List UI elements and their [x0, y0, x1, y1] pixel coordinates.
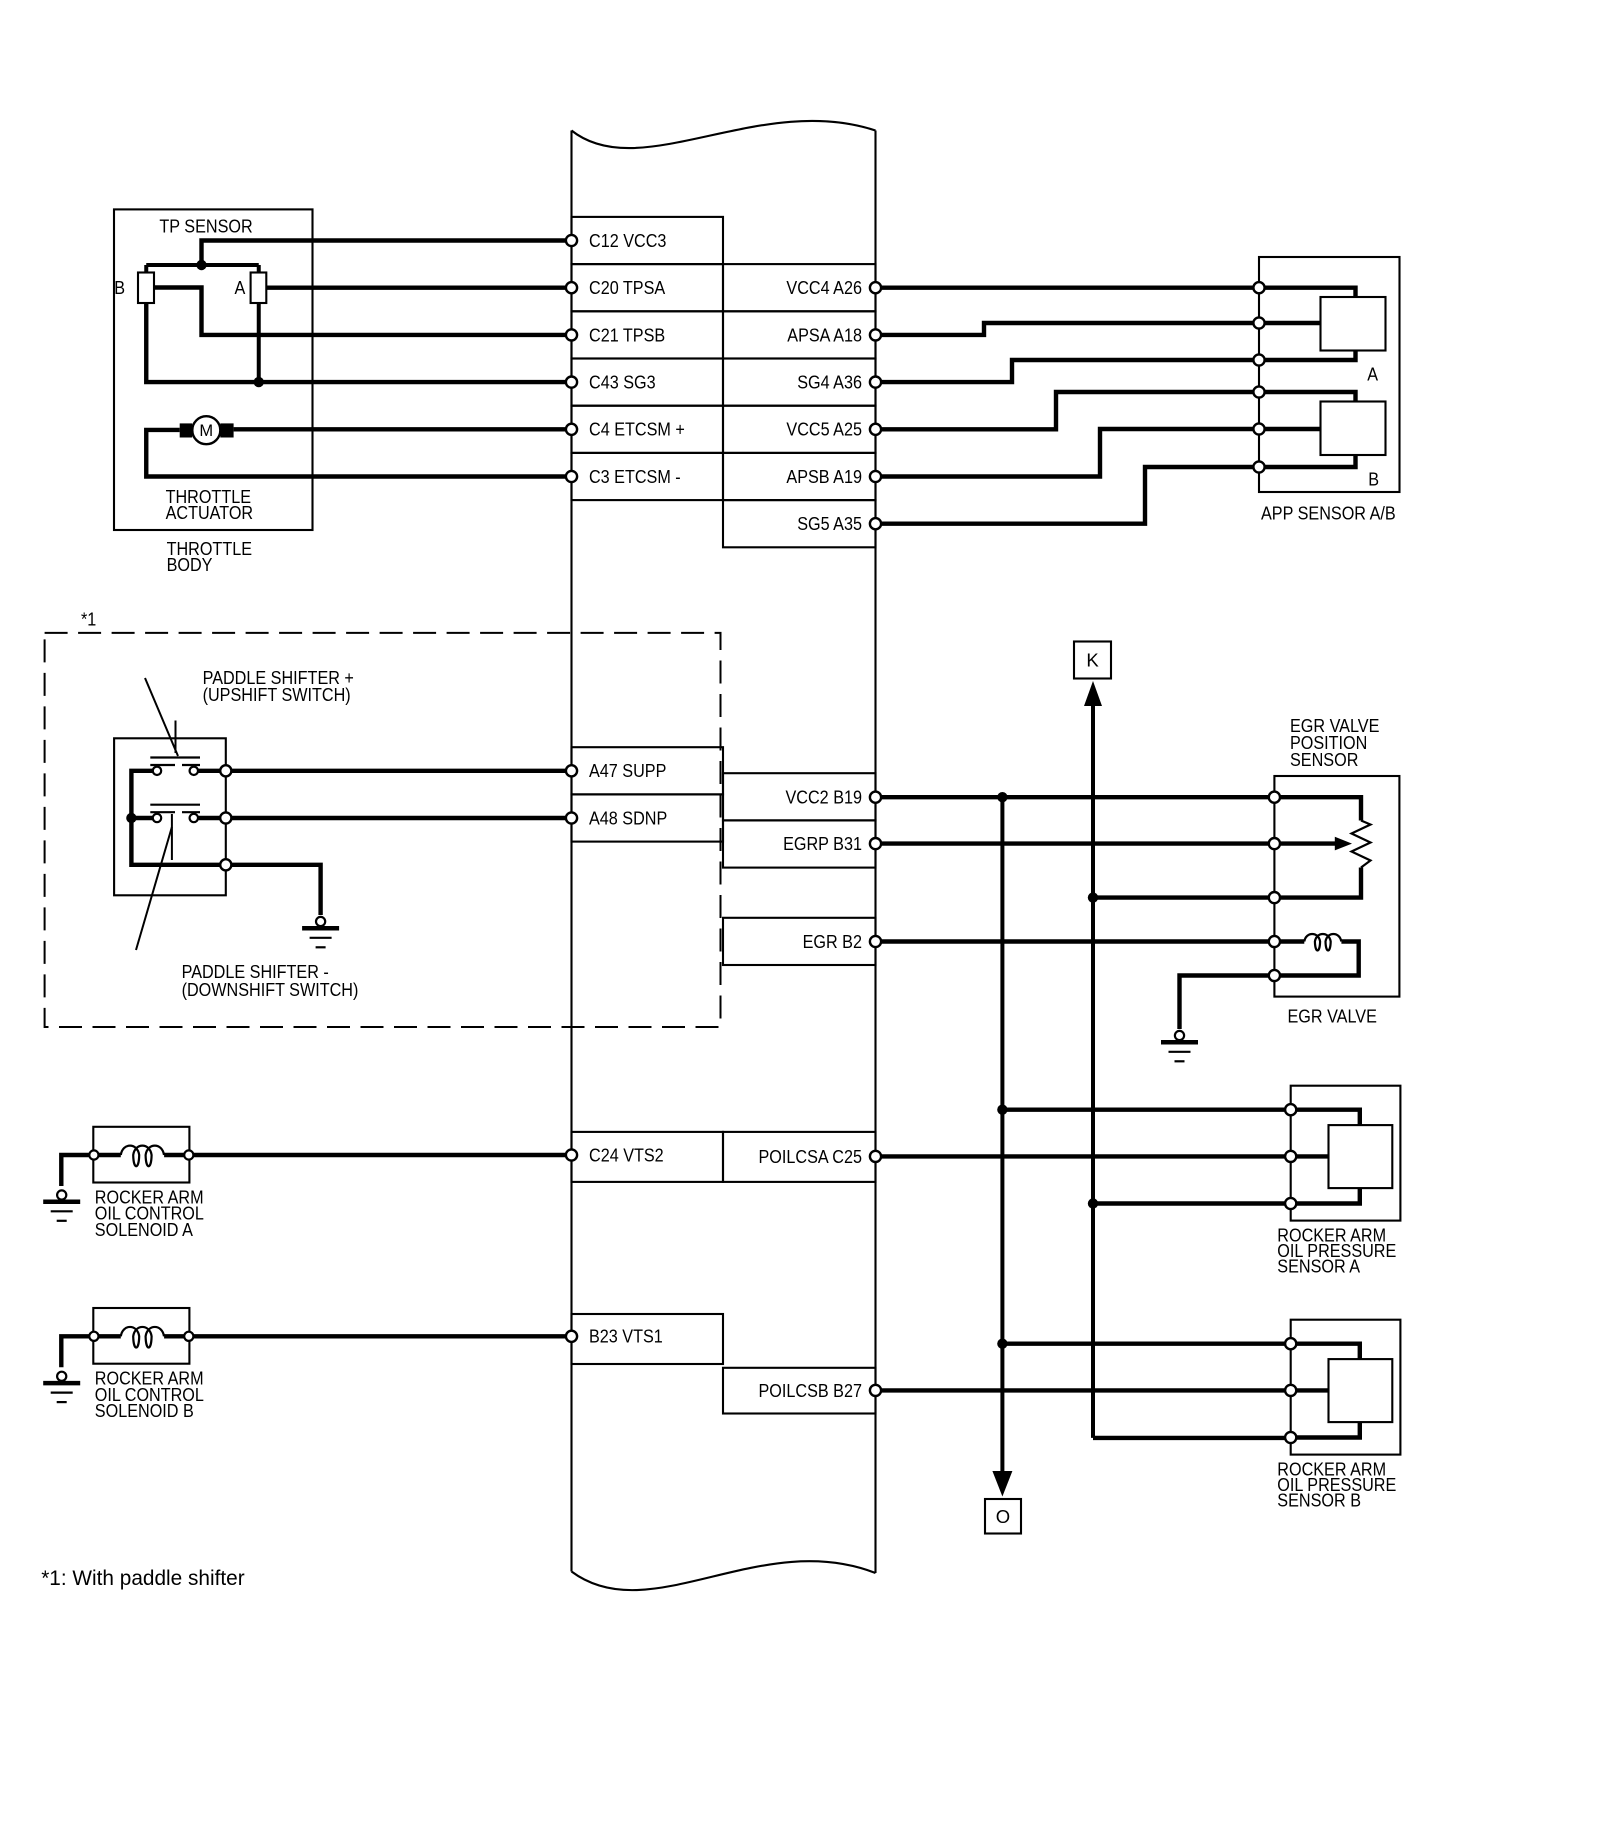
- svg-text:A: A: [1367, 363, 1378, 384]
- svg-text:C43 SG3: C43 SG3: [589, 372, 656, 393]
- svg-text:K: K: [1086, 649, 1099, 670]
- svg-text:M: M: [199, 422, 213, 440]
- svg-text:POILCSB B27: POILCSB B27: [759, 1380, 863, 1401]
- svg-text:*1: *1: [81, 608, 96, 629]
- svg-text:C12 VCC3: C12 VCC3: [589, 230, 666, 251]
- svg-text:SENSOR: SENSOR: [1290, 749, 1358, 770]
- svg-text:BODY: BODY: [167, 554, 213, 575]
- svg-text:SENSOR A: SENSOR A: [1277, 1256, 1360, 1277]
- svg-text:A48 SDNP: A48 SDNP: [589, 807, 667, 828]
- svg-text:VCC2 B19: VCC2 B19: [786, 787, 863, 808]
- svg-text:O: O: [996, 1506, 1010, 1527]
- svg-text:(UPSHIFT SWITCH): (UPSHIFT SWITCH): [203, 684, 351, 705]
- svg-text:C21 TPSB: C21 TPSB: [589, 324, 665, 345]
- svg-text:B: B: [114, 277, 125, 298]
- svg-text:*1: With paddle shifter: *1: With paddle shifter: [41, 1567, 245, 1590]
- svg-text:VCC4 A26: VCC4 A26: [786, 277, 862, 298]
- svg-text:A: A: [235, 277, 246, 298]
- svg-text:APP SENSOR A/B: APP SENSOR A/B: [1261, 502, 1396, 523]
- svg-text:ACTUATOR: ACTUATOR: [166, 502, 254, 523]
- svg-text:SOLENOID A: SOLENOID A: [95, 1219, 194, 1240]
- svg-text:C4 ETCSM +: C4 ETCSM +: [589, 419, 685, 440]
- svg-text:APSA A18: APSA A18: [787, 324, 862, 345]
- svg-text:SOLENOID B: SOLENOID B: [95, 1400, 194, 1421]
- svg-text:EGRP B31: EGRP B31: [783, 833, 862, 854]
- svg-text:C3 ETCSM -: C3 ETCSM -: [589, 466, 681, 487]
- svg-text:A47 SUPP: A47 SUPP: [589, 760, 666, 781]
- svg-text:VCC5 A25: VCC5 A25: [786, 419, 862, 440]
- svg-text:C24 VTS2: C24 VTS2: [589, 1144, 664, 1165]
- svg-text:(DOWNSHIFT SWITCH): (DOWNSHIFT SWITCH): [182, 979, 359, 1000]
- svg-text:EGR VALVE: EGR VALVE: [1288, 1005, 1377, 1026]
- svg-text:C20 TPSA: C20 TPSA: [589, 277, 666, 298]
- svg-text:B: B: [1368, 468, 1379, 489]
- svg-text:APSB A19: APSB A19: [786, 466, 862, 487]
- svg-text:POILCSA C25: POILCSA C25: [759, 1146, 863, 1167]
- svg-text:SG5 A35: SG5 A35: [797, 513, 862, 534]
- svg-text:SG4 A36: SG4 A36: [797, 372, 862, 393]
- svg-text:EGR B2: EGR B2: [803, 931, 862, 952]
- svg-text:SENSOR B: SENSOR B: [1277, 1490, 1361, 1511]
- svg-text:B23 VTS1: B23 VTS1: [589, 1326, 663, 1347]
- svg-text:TP SENSOR: TP SENSOR: [159, 215, 252, 236]
